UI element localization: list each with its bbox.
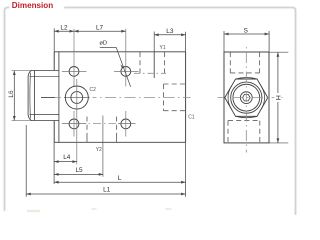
port C2 outer circle bbox=[65, 86, 88, 109]
svg-text:S: S bbox=[244, 27, 248, 34]
hole bottom-left bbox=[69, 119, 79, 129]
dimension L3 bbox=[154, 32, 185, 52]
port Y2 center vertical bbox=[102, 116, 104, 177]
port Y1 hidden lines bbox=[140, 52, 165, 75]
svg-text:C2: C2 bbox=[90, 87, 97, 93]
centerline main horizontal bbox=[56, 97, 61, 99]
svg-text:L: L bbox=[118, 175, 122, 182]
svg-text:Y1: Y1 bbox=[160, 45, 166, 51]
hole bottom-right centerlines bbox=[125, 111, 127, 137]
port C2 vertical centerline bbox=[76, 79, 78, 165]
port Y2 hidden slot left bbox=[86, 117, 88, 143]
svg-text:L2: L2 bbox=[60, 25, 68, 32]
svg-text:H: H bbox=[276, 95, 283, 100]
port C2 inner circle bbox=[71, 92, 83, 104]
hole top-right bbox=[121, 67, 131, 77]
dimension S bbox=[224, 31, 269, 52]
svg-text:L7: L7 bbox=[96, 25, 104, 32]
hole top-left bbox=[69, 67, 79, 77]
faint cut-off artifacts at bottom bbox=[27, 210, 40, 212]
dimension H bbox=[269, 52, 288, 143]
svg-text:L1: L1 bbox=[103, 186, 111, 193]
dimension L bbox=[54, 142, 186, 197]
svg-text:C1: C1 bbox=[188, 115, 195, 121]
hex plug face bbox=[225, 78, 268, 118]
port Y2 hidden slot right bbox=[116, 117, 118, 143]
block front+side view outline bbox=[54, 52, 185, 143]
internal vertical edge near left bbox=[58, 52, 60, 143]
hole top-right centerlines bbox=[114, 70, 139, 72]
dimension L7 bbox=[74, 30, 126, 33]
svg-text:L4: L4 bbox=[63, 154, 71, 161]
internal edge between views bbox=[153, 52, 155, 78]
hole top-left centerlines bbox=[62, 70, 87, 72]
hole bottom-left centerlines bbox=[73, 111, 75, 137]
svg-text:Y2: Y2 bbox=[96, 147, 102, 153]
dimension L5 bbox=[54, 173, 103, 176]
left hex plug bbox=[28, 71, 59, 121]
port C1 hidden outline bbox=[164, 84, 186, 111]
svg-text:L5: L5 bbox=[76, 167, 84, 174]
hole bottom-right bbox=[121, 119, 131, 129]
dimension L4 bbox=[54, 142, 77, 184]
svg-text:L6: L6 bbox=[8, 90, 15, 98]
card frame bbox=[5, 8, 296, 216]
end view horizontal centerline bbox=[218, 97, 286, 99]
dimension L2 bbox=[54, 28, 74, 52]
svg-text:L3: L3 bbox=[166, 28, 174, 35]
end view bottom hidden port bbox=[228, 121, 260, 143]
end view outline bbox=[224, 52, 269, 143]
plug circles bbox=[231, 82, 262, 113]
bottom holes horizontal centerline bbox=[62, 122, 86, 124]
hex socket bbox=[243, 94, 251, 101]
end view top hidden port bbox=[230, 52, 259, 73]
svg-text:øD: øD bbox=[99, 40, 107, 46]
end view vertical centerline bbox=[245, 47, 247, 153]
dimension L6 bbox=[12, 71, 33, 121]
dimension L1 bbox=[26, 125, 185, 197]
port Y1 axis centerline bbox=[134, 72, 166, 74]
svg-text:Dimension: Dimension bbox=[12, 1, 53, 10]
